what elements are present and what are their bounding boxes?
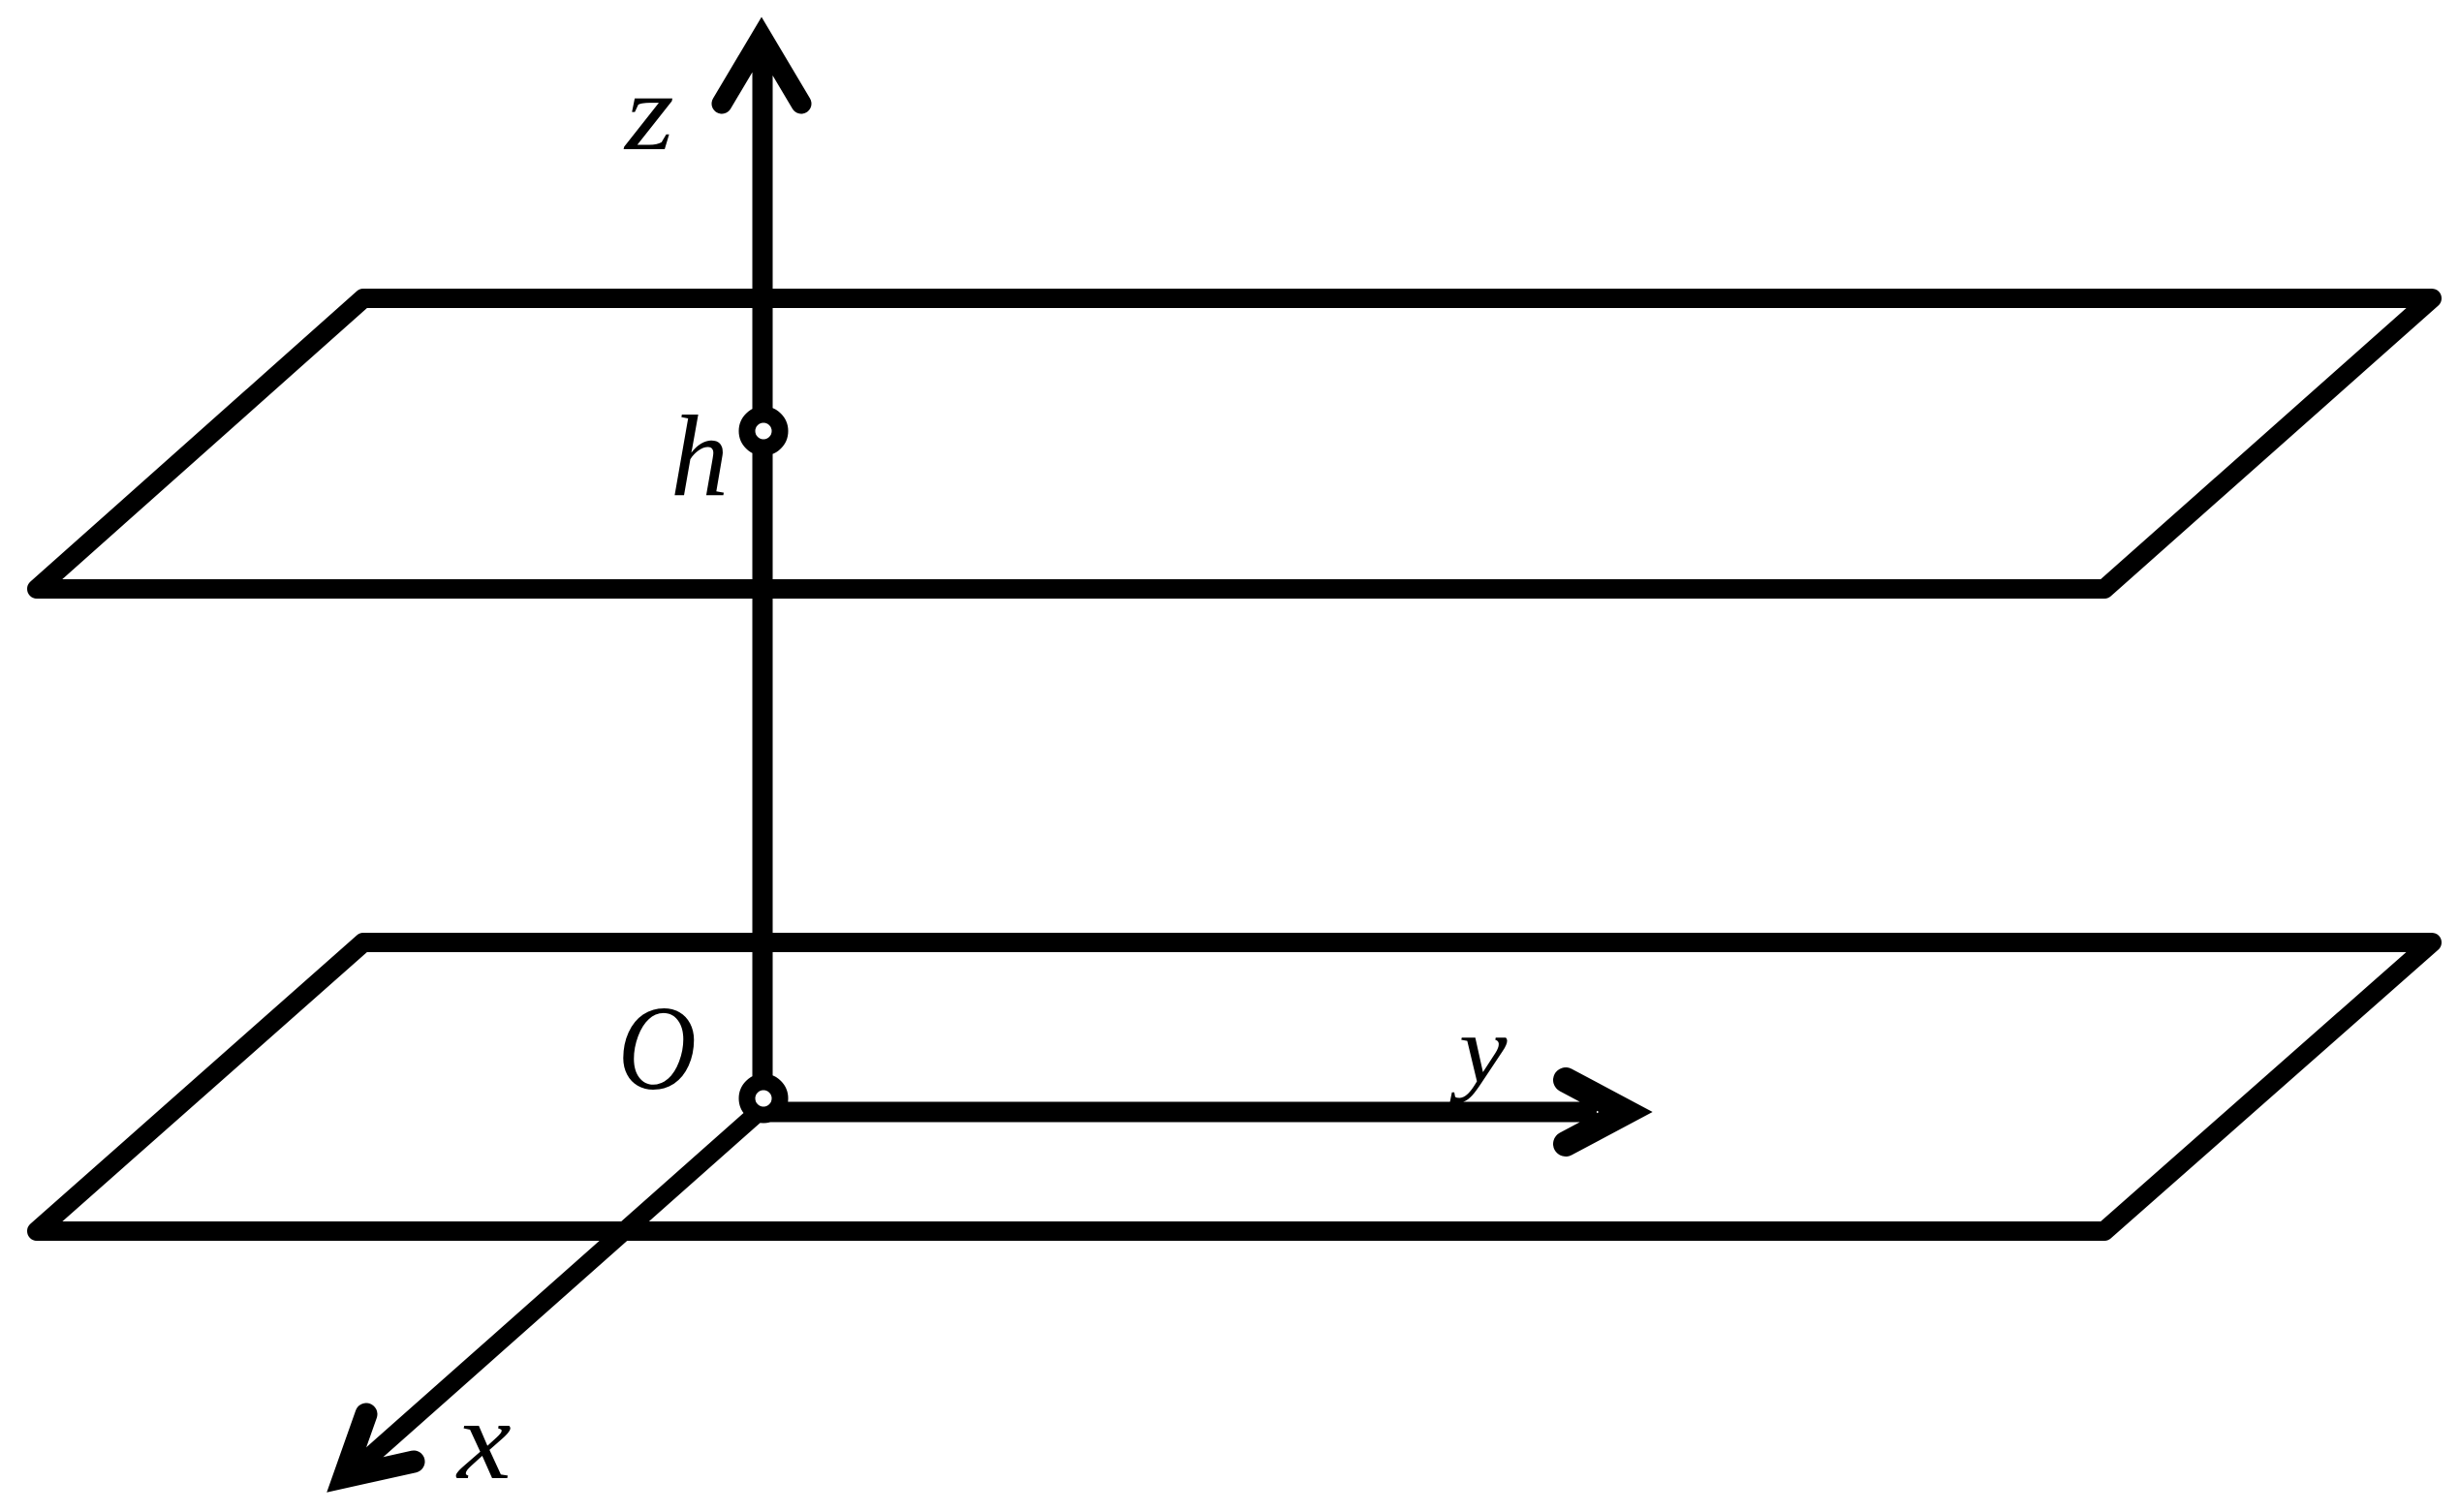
svg-text:z: z — [623, 51, 674, 173]
lower plane (parallelogram) — [37, 942, 2432, 1231]
label z — [623, 51, 674, 173]
upper plane (parallelogram) — [37, 298, 2432, 589]
point h marker (ring) — [747, 415, 780, 447]
label x — [455, 1377, 512, 1503]
z-axis arrowhead — [722, 37, 801, 104]
origin O marker (ring) — [747, 1082, 780, 1115]
x-axis shaft — [349, 1104, 767, 1475]
label y — [1449, 995, 1508, 1102]
y-axis shaft — [763, 1102, 1597, 1123]
svg-text:O: O — [618, 981, 697, 1116]
label O — [618, 981, 697, 1116]
x-axis arrowhead — [344, 1414, 414, 1477]
z-axis shaft — [753, 44, 773, 1104]
svg-text:h: h — [670, 391, 729, 520]
svg-text:y: y — [1449, 995, 1508, 1102]
y-axis arrowhead — [1566, 1080, 1626, 1144]
svg-text:x: x — [455, 1377, 512, 1503]
